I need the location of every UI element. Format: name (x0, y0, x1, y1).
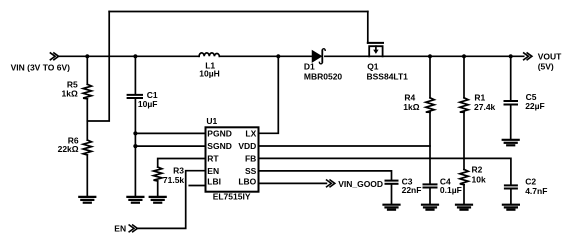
node junction dot SGND (133, 144, 137, 148)
wire R1 bottom to R2 top (crosses FB) (463, 112, 465, 169)
svg-text:LX: LX (245, 128, 256, 138)
svg-text:EN: EN (114, 223, 126, 233)
ground below C1 (127, 197, 143, 203)
wire SGND (135, 145, 205, 147)
node junction dot R4/rail (428, 54, 432, 58)
resistor R1 (460, 98, 468, 113)
wire R3 bottom (157, 181, 159, 195)
node junction dot C1/VIN rail (133, 54, 137, 58)
wire VDD line (259, 145, 431, 147)
ground below R2 (456, 205, 472, 210)
wire R4 bottom to C4 (429, 112, 431, 184)
wire output rail (D1 cathode to VOUT arrow) (325, 55, 524, 57)
svg-text:BSS84LT1: BSS84LT1 (367, 72, 409, 82)
transistor Q1 (BSS84LT1 PMOS) (368, 12, 383, 57)
capacitor C5 (505, 101, 518, 105)
ground below R6 (79, 197, 95, 203)
wire R6 bottom (86, 155, 88, 195)
wire C3 bottom (391, 184, 393, 204)
node junction dot R1/rail (462, 54, 466, 58)
svg-text:22kΩ: 22kΩ (58, 144, 79, 154)
svg-text:1kΩ: 1kΩ (62, 88, 78, 98)
svg-text:D1: D1 (304, 61, 315, 71)
svg-text:PGND: PGND (207, 128, 232, 138)
svg-text:SS: SS (245, 166, 257, 176)
svg-text:10µH: 10µH (199, 68, 220, 78)
wire R2 bottom (463, 185, 465, 205)
wire LX up to inductor/diode node (259, 56, 279, 133)
ground below C3 (384, 205, 400, 210)
arrow VIN input (50, 53, 58, 60)
svg-text:FB: FB (245, 153, 256, 163)
wire PGND (135, 132, 205, 134)
wire R5 top (86, 56, 88, 84)
wire C5 bottom (510, 105, 512, 139)
svg-text:Q1: Q1 (367, 61, 379, 71)
svg-text:MBR0520: MBR0520 (304, 72, 343, 82)
svg-text:10µF: 10µF (138, 99, 158, 109)
svg-text:(5V): (5V) (538, 62, 554, 72)
wire VIN rail left segment (58, 55, 199, 57)
svg-text:0.1µF: 0.1µF (440, 185, 462, 195)
capacitor C2 (505, 185, 517, 188)
wire R4 top (429, 56, 431, 98)
capacitor C1 (128, 95, 142, 98)
wire top rail (109, 11, 368, 13)
node junction dot PGND (133, 131, 137, 135)
wire SS line to C3 (259, 171, 392, 180)
ground below C4 (422, 205, 438, 210)
svg-text:71.5k: 71.5k (163, 175, 185, 185)
capacitor C3 (386, 181, 398, 184)
ground below R3 (150, 197, 166, 203)
ground below C2 (503, 205, 519, 210)
svg-text:EN: EN (207, 166, 219, 176)
arrow VIN_GOOD output (327, 180, 335, 187)
wire LBI stub (189, 185, 205, 187)
svg-text:4.7nF: 4.7nF (525, 186, 547, 196)
wire FB line to C2 (259, 158, 511, 185)
wire C1 top (134, 56, 136, 94)
svg-text:22µF: 22µF (525, 101, 545, 111)
capacitor C4 (424, 184, 437, 187)
arrow VOUT output (524, 53, 532, 60)
wire R1 top (463, 56, 465, 98)
wire C4 bottom (429, 188, 431, 204)
svg-text:R2: R2 (472, 165, 483, 175)
resistor R4 (426, 98, 434, 113)
svg-text:22nF: 22nF (402, 185, 422, 195)
wire EN pin down to EN input (137, 171, 205, 229)
svg-text:EL7515IY: EL7515IY (213, 192, 251, 202)
wire VIN rail middle segment (L1 to D1) (219, 55, 312, 57)
svg-text:27.4k: 27.4k (474, 102, 496, 112)
svg-text:RT: RT (207, 154, 219, 164)
node junction dot C5/rail (509, 54, 513, 58)
wire LBO line (259, 182, 327, 184)
svg-text:10k: 10k (472, 175, 486, 185)
wire C5 top (510, 56, 512, 100)
diode D1 (Schottky MBR0520) (313, 49, 326, 64)
ground below C5 (503, 140, 519, 146)
wire C2 bottom (510, 189, 512, 204)
svg-text:VDD: VDD (238, 141, 256, 151)
wire R5 bottom to R6 top (86, 99, 88, 140)
svg-text:LBI: LBI (207, 176, 221, 186)
node junction dot R5/VIN rail (85, 54, 89, 58)
resistor R6 (83, 140, 91, 155)
op-amp U1 (EL7515IY box) (206, 127, 259, 191)
wire top-rail left vertical to R5/R6 junction (87, 12, 109, 122)
resistor R2 (460, 169, 468, 184)
wire C1 bottom (134, 99, 136, 196)
resistor R3 (154, 167, 162, 181)
svg-text:U1: U1 (206, 116, 217, 126)
arrow EN input (129, 225, 137, 232)
inductor L1 (199, 53, 219, 56)
wire RT to R3 (158, 159, 206, 168)
svg-text:VOUT: VOUT (538, 51, 562, 61)
resistor R5 (83, 84, 91, 99)
svg-text:VIN_GOOD: VIN_GOOD (338, 179, 383, 189)
node junction dot LX/rail (276, 54, 280, 58)
svg-text:LBO: LBO (238, 176, 256, 186)
svg-text:VIN (3V TO 6V): VIN (3V TO 6V) (11, 62, 71, 72)
svg-text:1kΩ: 1kΩ (403, 102, 419, 112)
svg-text:SGND: SGND (207, 141, 232, 151)
